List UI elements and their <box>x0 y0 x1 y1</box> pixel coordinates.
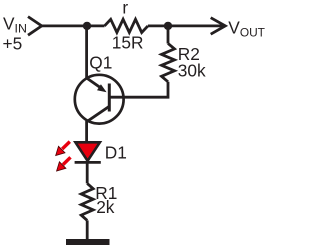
wire junction B to VOUT arrow <box>168 24 224 27</box>
transistor Q1 body circle <box>75 75 124 124</box>
wire R1 to ground <box>86 220 89 240</box>
wire D1 cathode to R1 <box>86 162 89 183</box>
LED D1 anode triangle (red) <box>75 142 100 161</box>
svg-text:VOUT: VOUT <box>228 18 265 40</box>
resistor R2 30k <box>162 43 175 81</box>
LED D1 light emission arrow 2 <box>57 157 71 171</box>
svg-text:30k: 30k <box>178 61 206 81</box>
transistor Q1 collector line <box>87 106 110 122</box>
resistor R1 2k <box>81 183 93 220</box>
node VOUT output arrow <box>211 18 226 35</box>
wire R2 bottom to Q1 base <box>110 82 168 97</box>
transistor Q1 emitter arrowhead <box>97 84 107 92</box>
wire junction B down to R2 <box>167 26 170 44</box>
wire junction A down to Q1 emitter <box>85 26 88 79</box>
wire VIN to junction A <box>42 24 87 27</box>
wire Q1 collector to LED D1 anode <box>85 121 88 143</box>
resistor r 15R <box>105 19 148 32</box>
junction B <box>164 22 172 30</box>
svg-text:2k: 2k <box>96 197 115 217</box>
wire resistor r to junction B <box>148 24 168 27</box>
svg-text:Q1: Q1 <box>89 53 112 73</box>
junction A <box>83 22 91 30</box>
wire junction A to resistor r <box>87 24 105 27</box>
svg-text:+5: +5 <box>3 34 23 54</box>
svg-text:r: r <box>122 0 128 17</box>
svg-text:15R: 15R <box>112 33 144 53</box>
transistor Q1 base bar <box>108 84 111 112</box>
LED D1 light emission arrow 1 <box>56 142 70 156</box>
transistor Q1 emitter line (arrow toward base) <box>87 78 101 88</box>
ground <box>66 239 110 245</box>
node VIN input terminal <box>28 17 42 36</box>
svg-text:VIN: VIN <box>3 13 27 35</box>
LED D1 cathode bar <box>75 161 101 164</box>
svg-text:D1: D1 <box>105 142 127 162</box>
